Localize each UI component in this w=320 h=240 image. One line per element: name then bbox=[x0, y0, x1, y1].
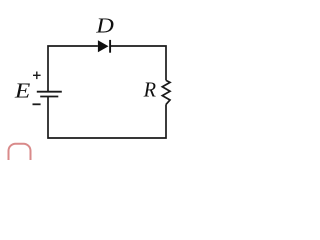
resistor R zigzag bbox=[162, 80, 170, 104]
battery E positive plate (long) bbox=[37, 91, 62, 93]
diode D triangle (anode) bbox=[98, 40, 109, 52]
svg-text:E: E bbox=[14, 79, 31, 103]
wire top-right: from diode cathode to top-right corner down to resistor bbox=[110, 46, 166, 80]
svg-text:R: R bbox=[143, 78, 157, 102]
plus sign bbox=[33, 72, 41, 80]
decorative pink rounded shape bottom-left bbox=[9, 144, 31, 170]
battery E negative plate (short) bbox=[40, 96, 58, 98]
wire bottom: from battery negative down, across bottom, up to resistor bbox=[48, 97, 166, 139]
diode D cathode bar bbox=[109, 40, 111, 53]
svg-text:D: D bbox=[95, 14, 114, 38]
minus sign bbox=[33, 103, 41, 105]
wire top-left: from top-left corner to diode anode bbox=[48, 46, 98, 92]
